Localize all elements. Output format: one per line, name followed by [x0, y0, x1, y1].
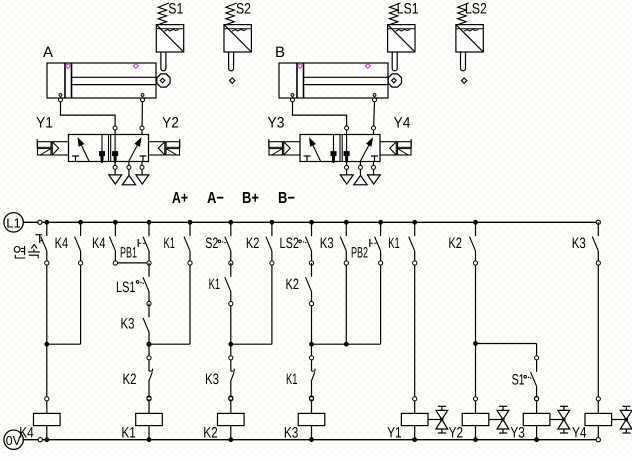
svg-text:Y4: Y4 [572, 424, 587, 441]
cylinder A port right [141, 94, 144, 97]
terminal circle on L1 rail [38, 220, 42, 224]
svg-text:S2: S2 [236, 1, 251, 18]
NO contact K2 (rung7) [270, 220, 275, 225]
svg-text:B−: B− [278, 190, 295, 207]
valve symbol at Y3 [550, 419, 564, 421]
relay coil K3 [309, 397, 313, 401]
limit switch LS2 [456, 1, 487, 71]
supply rail L1 [4, 213, 23, 232]
svg-text:K3: K3 [205, 371, 219, 388]
valve symbol at Y2 [489, 419, 503, 421]
tube cylinder B right port to valve port 2 [373, 102, 376, 126]
svg-text:LS2: LS2 [280, 235, 300, 252]
svg-text:A+: A+ [172, 190, 188, 207]
position marker A2 [133, 64, 138, 69]
ground rail 0V [4, 430, 23, 449]
svg-text:K1: K1 [388, 235, 400, 252]
NC contact K2 [147, 356, 151, 360]
limit switch contact S1 [535, 356, 539, 360]
position marker A1 [66, 64, 71, 69]
NO contact K1 (rung6) [230, 263, 232, 277]
wire rung9 down to tie [345, 265, 347, 344]
position marker B2 [365, 64, 370, 69]
cylinder B port left [291, 94, 294, 97]
junction rung4/rung5 [148, 344, 150, 356]
solenoid coil Y4 [596, 397, 600, 401]
svg-text:PB2: PB2 [351, 245, 368, 262]
svg-text:Y4: Y4 [394, 114, 411, 131]
valve V2 port 1 supply [358, 165, 362, 169]
wire rung7 down to tie [271, 265, 273, 344]
svg-text:K2: K2 [246, 235, 260, 252]
svg-text:K3: K3 [284, 424, 299, 441]
svg-text:K2: K2 [286, 276, 300, 293]
terminal circle on 0V rail [38, 438, 42, 442]
cylinder B port right [373, 94, 376, 97]
junction rung6/rung7 [228, 342, 233, 347]
NO contact K4 (rung3) [113, 220, 118, 225]
svg-text:K2: K2 [448, 235, 462, 252]
svg-text:K4: K4 [92, 235, 106, 252]
svg-text:Y2: Y2 [449, 424, 464, 441]
roller of limit switch LS1 on cylinder B rod [388, 74, 401, 87]
valve V2 port 3 exhaust [372, 165, 376, 169]
cylinder A [43, 44, 157, 98]
valve V2 port 4 [345, 126, 349, 130]
NO contact K1 (rung11) [412, 220, 417, 225]
wire rung5 down to tie [189, 265, 191, 344]
junction rung12 branch to S1 [473, 341, 478, 346]
svg-text:K3: K3 [320, 235, 334, 252]
tube cylinder B left port to valve port 4 [293, 102, 347, 126]
relay coil K2 [229, 397, 233, 401]
limit switch contact LS2 [309, 220, 314, 225]
relay coil K4 [45, 397, 49, 401]
svg-text:PB1: PB1 [120, 245, 137, 262]
NO contact K2 (rung8) [311, 263, 313, 277]
wire rung8 down [311, 306, 313, 345]
svg-text:K2: K2 [123, 371, 137, 388]
valve V2 port 5 exhaust [345, 165, 349, 169]
wire rung1 down [46, 265, 48, 344]
tie PB1 parallel [118, 262, 147, 264]
5/2-way double solenoid valve V1 [69, 135, 149, 164]
svg-text:Y2: Y2 [162, 114, 179, 131]
label 연속 (hand-drawn hangul) [14, 244, 40, 258]
svg-text:B: B [275, 44, 285, 61]
limit switch LS1 [388, 1, 419, 71]
svg-text:B+: B+ [242, 190, 259, 207]
svg-text:K2: K2 [203, 424, 218, 441]
solenoid Y2 (right pilot) [149, 114, 180, 155]
NO contact K3 (rung13) [596, 220, 600, 224]
valve V1 port 4 [113, 126, 117, 130]
svg-text:K1: K1 [209, 276, 221, 293]
5/2-way double solenoid valve V2 [300, 135, 380, 164]
NC contact K3 [230, 344, 232, 356]
relay coil K1 [147, 397, 151, 401]
NO contact K3 (rung4) [148, 304, 150, 318]
wire rung6 down [230, 306, 232, 345]
pushbutton PB2 [378, 220, 383, 225]
svg-text:K3: K3 [121, 315, 135, 332]
NO contact K3 (rung9) [344, 220, 349, 225]
valve V1 port 2 [140, 126, 144, 130]
svg-text:K1: K1 [121, 424, 135, 441]
wire rung10 down to tie [380, 265, 382, 344]
svg-text:A−: A− [207, 190, 224, 207]
limit switch S2 [224, 1, 251, 71]
svg-text:K1: K1 [286, 371, 298, 388]
svg-text:Y1: Y1 [36, 114, 53, 131]
svg-text:Y1: Y1 [387, 424, 402, 441]
limit switch contact LS1 [148, 263, 150, 277]
wire rung1 to coil K4 [46, 344, 48, 397]
svg-text:K3: K3 [572, 235, 586, 252]
valve symbol at Y1 [428, 419, 441, 421]
wire rung2 down to tie [80, 265, 82, 344]
svg-text:Y3: Y3 [510, 424, 525, 441]
wire rung12 down [475, 265, 477, 343]
cylinder B [275, 44, 389, 98]
valve symbol at Y4 [612, 419, 626, 421]
roller of limit switch S1 on cylinder A rod [157, 74, 170, 87]
svg-text:K1: K1 [164, 235, 176, 252]
solenoid Y1 (left pilot) [36, 114, 69, 155]
limit switch S1 [156, 1, 183, 71]
NO contact K1 (rung5) [188, 220, 193, 225]
tube cylinder A left port to valve port 4 [61, 102, 116, 126]
NO contact K2 (rung12) [473, 220, 478, 225]
cylinder A port left [59, 94, 62, 97]
solenoid coil Y2 [473, 397, 477, 401]
valve V1 port 1 supply [127, 165, 131, 169]
wire rung12 to coil Y2 [475, 344, 477, 397]
junction rung1/rung2 [44, 342, 49, 347]
svg-text:S1: S1 [168, 1, 183, 18]
svg-text:S2: S2 [205, 235, 218, 252]
tube cylinder A right port to valve port 2 [141, 102, 143, 126]
sensing point of LS2 [461, 78, 466, 83]
svg-text:Y3: Y3 [268, 114, 285, 131]
svg-text:A: A [43, 44, 53, 61]
svg-text:S1: S1 [512, 372, 525, 389]
svg-text:LS1: LS1 [116, 279, 136, 296]
svg-text:K4: K4 [19, 424, 34, 441]
wire rung11 to coil Y1 [414, 265, 416, 397]
NO contact K4 (rung2) [78, 220, 83, 225]
junction rung8 tie [309, 342, 314, 347]
solenoid Y3 (left pilot) [268, 114, 301, 155]
valve V1 port 3 exhaust [140, 165, 144, 169]
detent switch (연속 = continuous) [44, 220, 49, 225]
solenoid Y4 (right pilot) [380, 114, 411, 155]
valve V2 port 2 [372, 126, 376, 130]
solenoid coil Y1 [413, 397, 417, 401]
solenoid coil Y3 [535, 397, 539, 401]
svg-text:L1: L1 [6, 215, 20, 230]
svg-text:K4: K4 [55, 235, 69, 252]
pushbutton PB1 [147, 220, 152, 225]
limit switch contact S2 [228, 220, 233, 225]
valve V1 port 5 exhaust [113, 165, 117, 169]
sensing point of S2 [230, 78, 235, 83]
position marker B1 [298, 64, 303, 69]
NC contact K1 [311, 344, 313, 356]
wire rung13 to coil Y4 [597, 265, 599, 397]
